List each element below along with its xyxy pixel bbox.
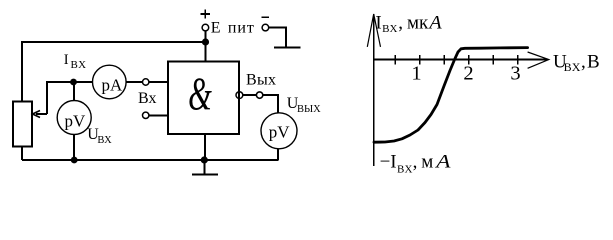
svg-text:,: ,: [413, 152, 418, 173]
svg-text:ВЫХ: ВЫХ: [297, 104, 321, 115]
svg-text:pV: pV: [269, 122, 291, 141]
svg-text:А: А: [434, 152, 451, 173]
svg-text:ВХ: ВХ: [397, 163, 413, 175]
svg-text:−I: −I: [380, 152, 397, 173]
svg-text:2: 2: [463, 63, 473, 85]
svg-text:ВХ: ВХ: [97, 135, 112, 146]
svg-text:1: 1: [411, 63, 421, 85]
svg-text:pA: pA: [102, 75, 124, 94]
svg-text:м: м: [421, 152, 433, 173]
svg-text:pV: pV: [65, 111, 87, 130]
svg-text:Вх: Вх: [138, 90, 156, 107]
svg-text:Е: Е: [211, 19, 221, 36]
svg-text:ВХ: ВХ: [382, 23, 398, 35]
svg-text:,: ,: [398, 13, 403, 34]
svg-text:I: I: [64, 52, 69, 68]
svg-text:пит: пит: [228, 19, 255, 36]
svg-text:&: &: [188, 67, 212, 119]
svg-text:ВХ: ВХ: [564, 60, 581, 74]
svg-text:3: 3: [510, 63, 520, 85]
svg-text:мк: мк: [407, 13, 429, 34]
svg-text:В: В: [587, 52, 600, 73]
svg-text:,: ,: [581, 52, 586, 73]
svg-text:ВХ: ВХ: [71, 59, 87, 71]
svg-text:А: А: [427, 13, 442, 34]
svg-text:I: I: [375, 13, 381, 34]
svg-text:Вых: Вых: [246, 72, 276, 89]
